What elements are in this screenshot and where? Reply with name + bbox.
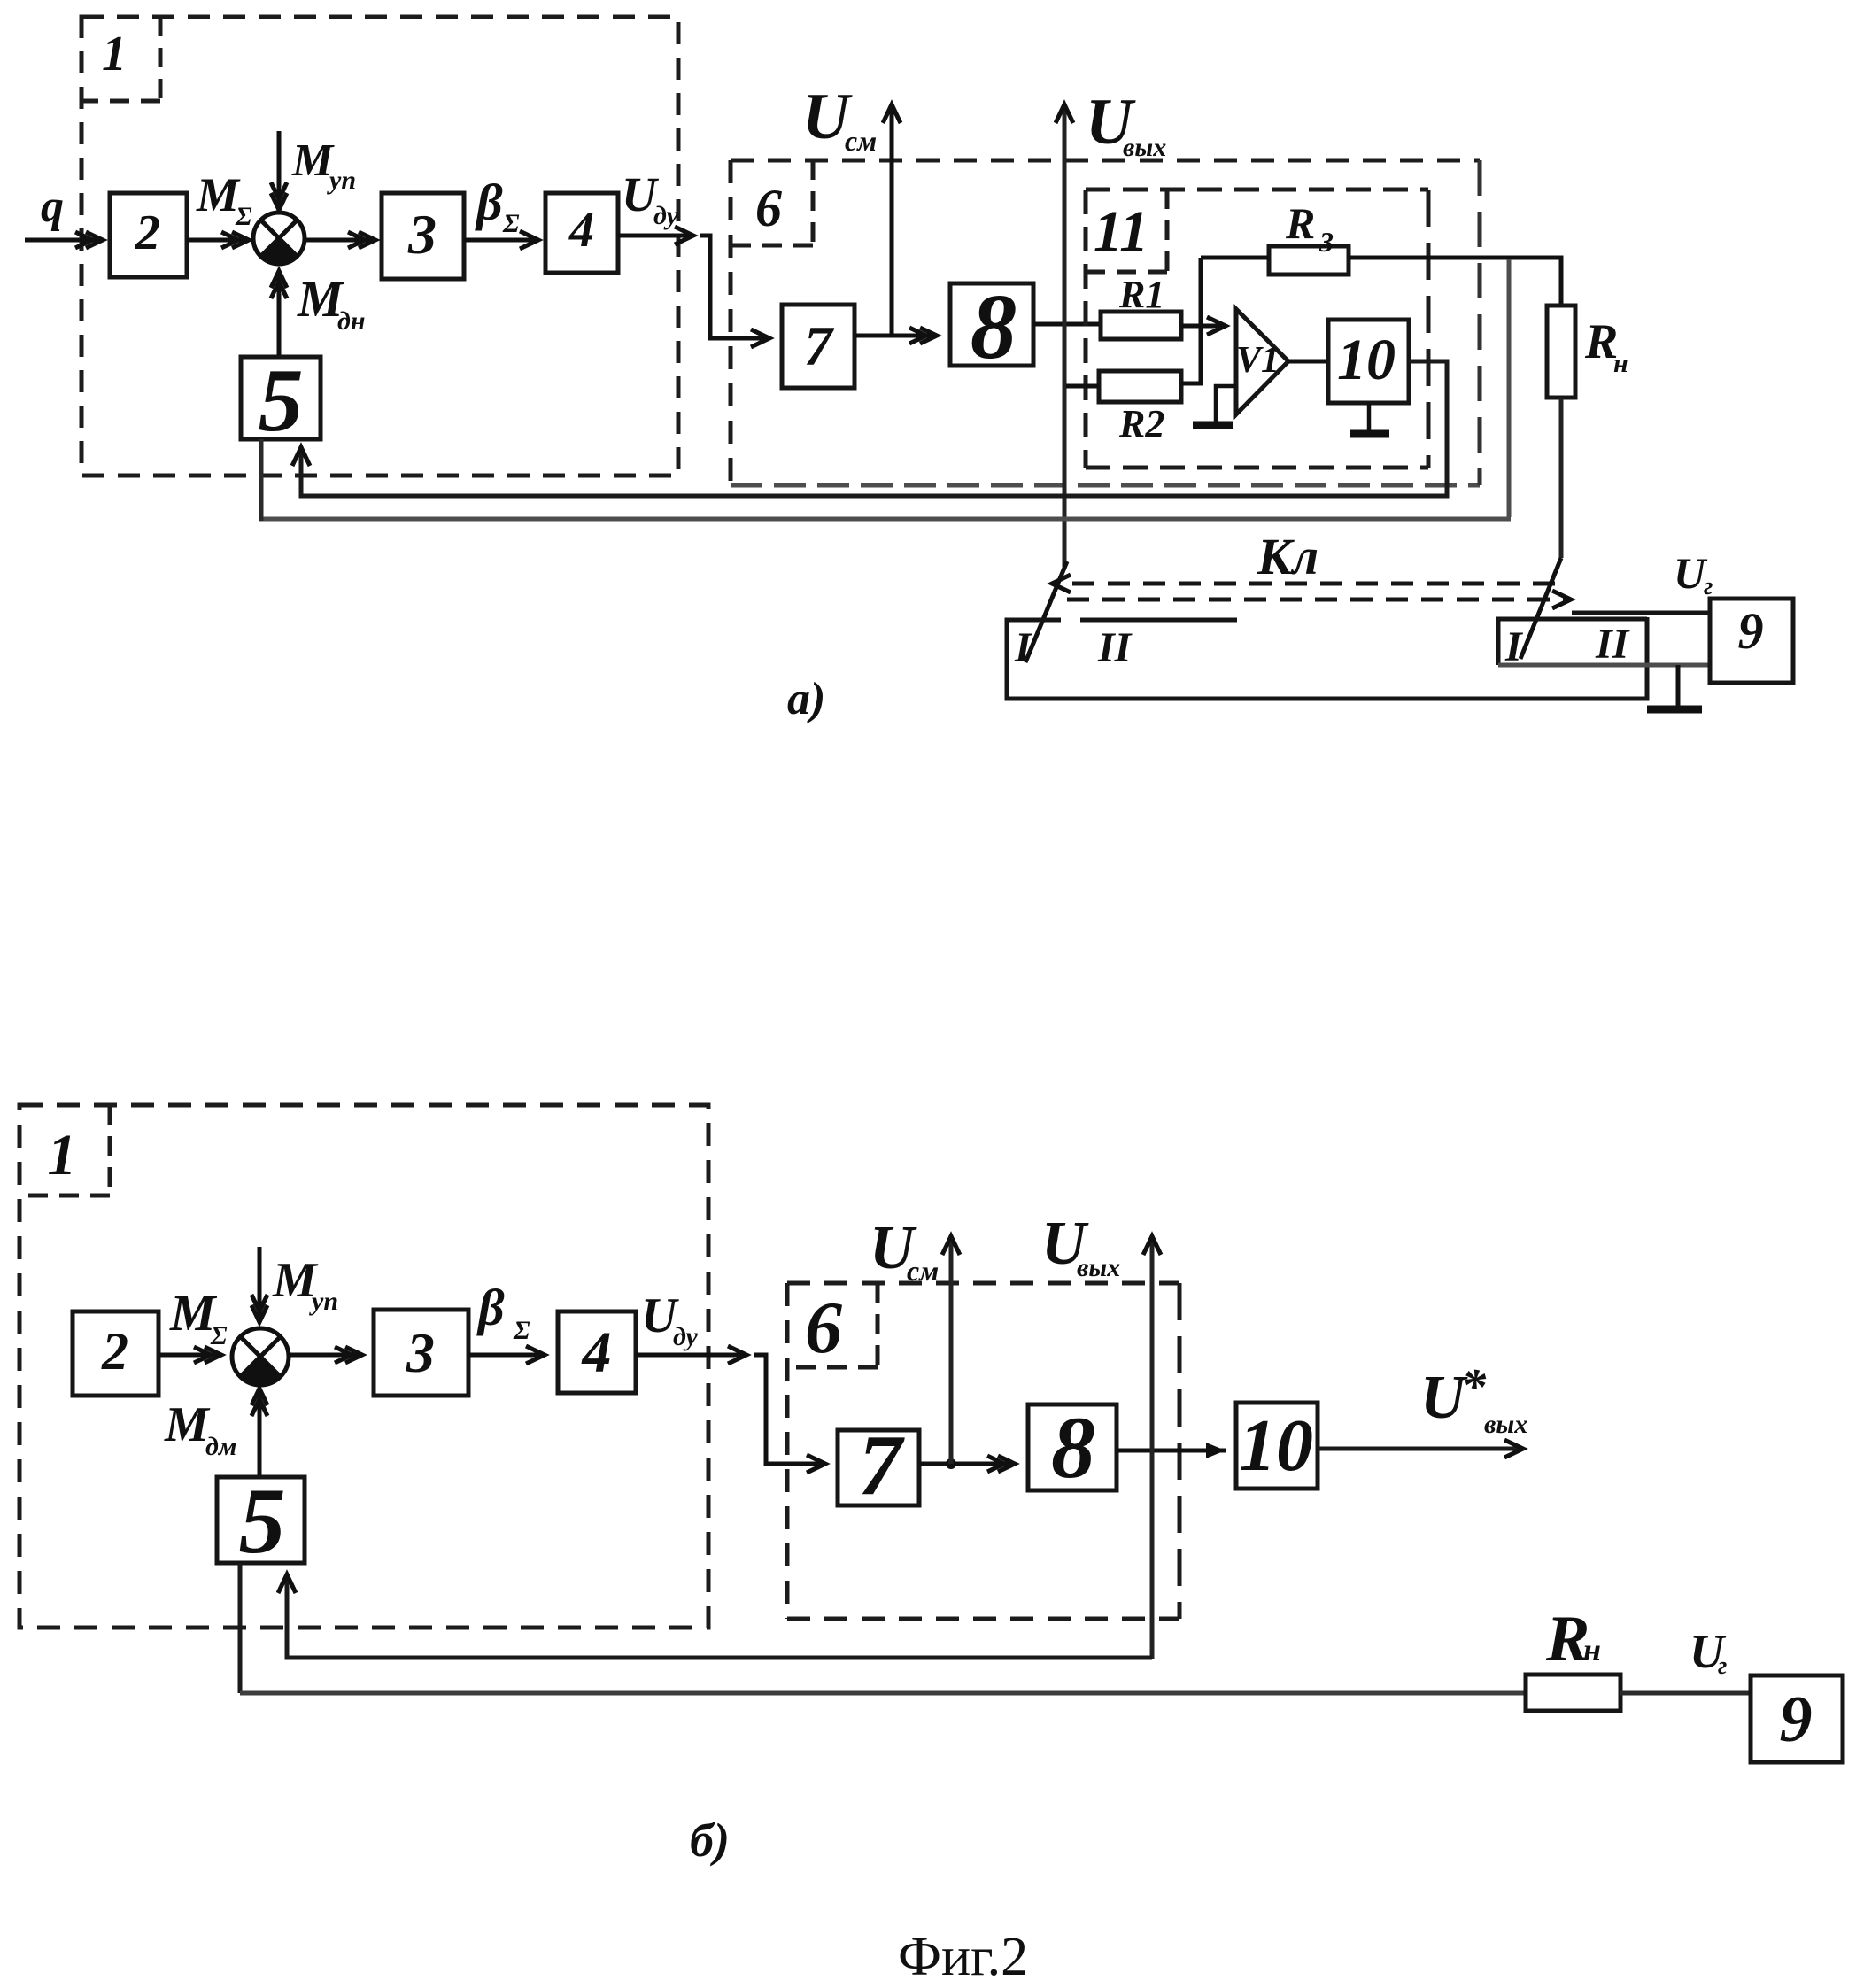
wire summer to block 3 — [304, 238, 375, 243]
block 2 — [73, 1311, 159, 1396]
svg-text:Σ: Σ — [513, 1316, 530, 1345]
contact II right bar to block 9 — [1572, 611, 1710, 615]
wire Rn to right switch pole — [1559, 398, 1564, 558]
block 2 — [110, 193, 187, 277]
svg-text:II: II — [1595, 621, 1631, 668]
svg-text:*: * — [1461, 1359, 1487, 1414]
wire block 5 down to load line — [238, 1563, 243, 1693]
svg-text:β: β — [475, 174, 503, 231]
svg-text:2: 2 — [101, 1322, 128, 1381]
svg-text:уп: уп — [309, 1287, 338, 1316]
wire R1 to op-amp input — [1181, 324, 1226, 329]
svg-text:6: 6 — [805, 1287, 842, 1369]
svg-text:Σ: Σ — [235, 202, 252, 231]
wire to block 7 — [754, 1355, 825, 1464]
svg-text:вых: вых — [1077, 1253, 1120, 1282]
svg-text:б): б) — [690, 1814, 730, 1867]
svg-text:V1: V1 — [1236, 340, 1280, 381]
wire block 10 output U*vyh — [1318, 1447, 1523, 1451]
svg-text:Σ: Σ — [502, 209, 520, 238]
wire R3 to Rn top — [1349, 258, 1561, 306]
block 7 — [838, 1430, 919, 1505]
wire U_sm tap — [890, 104, 894, 336]
switch coupling dashed link lower — [1067, 598, 1571, 602]
svg-text:а): а) — [787, 674, 825, 724]
svg-text:5: 5 — [259, 351, 304, 451]
ground at block 10 — [1367, 403, 1372, 432]
svg-text:11: 11 — [1094, 199, 1148, 264]
wire current feedback horizontal to block 5 — [259, 517, 1511, 522]
wire switch line to R2 — [1066, 384, 1099, 389]
wire feedback U_vyh to block 5 — [287, 1574, 1152, 1658]
wire block 8 to block 10 — [1117, 1449, 1226, 1453]
svg-text:Фиг.2: Фиг.2 — [898, 1927, 1028, 1987]
label box of block 1 — [19, 1105, 110, 1195]
svg-text:Σ: Σ — [210, 1321, 228, 1350]
wire block 7 to block 8 — [919, 1462, 1015, 1466]
svg-text:β: β — [476, 1279, 505, 1336]
wire block 4 output — [636, 1353, 746, 1358]
node summing vertical R1 R2 R3 — [1199, 258, 1203, 383]
wire U_vyh tap and feedback down — [1150, 1236, 1155, 1659]
resistor R3 — [1269, 246, 1349, 275]
svg-text:см: см — [845, 125, 877, 157]
svg-text:R: R — [1285, 198, 1315, 248]
wire block 5 to summer bottom — [258, 1389, 262, 1477]
block 3 — [382, 193, 464, 279]
wire op-amp to block 10 — [1288, 360, 1328, 364]
svg-text:уп: уп — [327, 166, 356, 195]
label box of block 6 — [787, 1283, 878, 1367]
op-amp V1 — [1236, 309, 1288, 414]
wire block 3 to block 4 — [468, 1353, 545, 1358]
svg-text:6: 6 — [755, 179, 782, 237]
svg-text:Кл: Кл — [1257, 528, 1319, 585]
label box of block 1 — [81, 17, 160, 101]
block 4 — [558, 1311, 636, 1393]
wire bottom of right contact to block 9 — [1498, 663, 1710, 668]
switch blade right pole — [1520, 558, 1561, 659]
svg-text:вых: вых — [1484, 1410, 1527, 1439]
wire block 8 to R1 — [1033, 322, 1101, 327]
svg-text:н: н — [1583, 1632, 1601, 1667]
svg-text:г: г — [1718, 1652, 1727, 1680]
svg-text:M: M — [291, 135, 335, 186]
svg-text:дн: дн — [337, 306, 366, 336]
junction U_sm — [946, 1458, 956, 1469]
wire block 4 output — [618, 234, 693, 238]
svg-text:3: 3 — [1319, 226, 1334, 258]
wire block 10 output feedback to block 5 — [301, 361, 1447, 496]
svg-text:7: 7 — [859, 1418, 906, 1513]
svg-text:10: 10 — [1337, 328, 1396, 392]
switch right contact frame — [1498, 619, 1647, 665]
wire block 2 to summer — [187, 238, 249, 243]
ground at op-amp input — [1216, 386, 1236, 423]
ground at block 9 — [1676, 665, 1681, 708]
wire block 2 to summer — [159, 1353, 221, 1358]
label box of block 11 — [1086, 190, 1167, 272]
svg-text:8: 8 — [971, 275, 1017, 378]
svg-text:R1: R1 — [1118, 273, 1164, 316]
switch blade left pole — [1025, 561, 1067, 662]
svg-text:10: 10 — [1239, 1404, 1313, 1487]
svg-text:1: 1 — [48, 1123, 77, 1187]
block 8 — [1028, 1404, 1117, 1490]
wire U_sm tap — [949, 1236, 954, 1464]
box 11 right edge — [1427, 190, 1431, 468]
block 5 — [217, 1477, 305, 1563]
svg-text:5: 5 — [239, 1469, 286, 1573]
svg-text:вых: вых — [1123, 133, 1166, 162]
svg-text:4: 4 — [581, 1320, 612, 1385]
svg-text:1: 1 — [102, 27, 127, 81]
box 11 top edge — [1086, 188, 1428, 192]
svg-text:M: M — [196, 168, 241, 221]
wire M_up into summer top — [258, 1247, 262, 1322]
wire q input — [25, 238, 103, 243]
box 6 left edge — [729, 160, 733, 485]
block 10 — [1236, 1403, 1318, 1489]
wire into block 5 bottom left — [259, 439, 264, 521]
box 6 bottom edge — [731, 483, 1480, 488]
block 5 — [241, 357, 321, 439]
svg-text:9: 9 — [1780, 1683, 1813, 1756]
svg-text:R2: R2 — [1118, 402, 1164, 445]
resistor R1 — [1101, 312, 1181, 339]
svg-text:ду: ду — [673, 1322, 698, 1351]
svg-text:8: 8 — [1051, 1398, 1095, 1497]
wire M_up into summer top — [277, 131, 282, 210]
block 9 — [1751, 1675, 1843, 1762]
wire summer to block 3 — [287, 1353, 362, 1358]
box 6 top edge — [731, 159, 1480, 163]
block 10 — [1328, 320, 1409, 403]
svg-text:н: н — [1613, 349, 1628, 378]
svg-text:I: I — [1014, 624, 1033, 671]
svg-text:9: 9 — [1738, 602, 1764, 660]
svg-text:дм: дм — [205, 1432, 236, 1461]
wire block 3 to block 4 — [464, 238, 538, 243]
switch left contact frame — [1007, 617, 1647, 699]
svg-text:7: 7 — [804, 314, 835, 377]
wire block 5 to summer bottom — [277, 271, 282, 357]
dashed box 11 (amplifier unit) — [1086, 190, 1428, 468]
block 9 — [1710, 599, 1793, 683]
svg-text:3: 3 — [407, 203, 437, 266]
svg-text:II: II — [1097, 624, 1133, 671]
label box of block 6 — [731, 160, 813, 245]
wire node to R3 — [1201, 256, 1269, 260]
dashed box 1 (gyro unit) — [81, 17, 678, 476]
switch coupling dashed link upper — [1052, 582, 1555, 586]
svg-text:M: M — [164, 1397, 211, 1452]
svg-text:ду: ду — [653, 201, 678, 230]
summing junction — [232, 1328, 289, 1385]
block 7 — [782, 305, 855, 388]
wire block 7 to block 8 — [855, 334, 937, 338]
block 4 — [545, 193, 618, 273]
box 11 bottom edge — [1086, 466, 1428, 470]
contact II left bar — [1080, 618, 1237, 623]
svg-text:2: 2 — [135, 205, 160, 260]
summing junction — [253, 213, 305, 264]
block 3 — [374, 1310, 468, 1396]
wire Rn to block 9 — [1620, 1691, 1751, 1696]
svg-text:г: г — [1704, 573, 1713, 600]
wire U_vyh tap down to switch — [1063, 104, 1067, 567]
wire current feedback from Rn junction — [1507, 259, 1512, 517]
dashed box 1 (gyro unit, diagram b) — [19, 1105, 708, 1628]
resistor Rn (load, diagram b) — [1526, 1675, 1620, 1711]
resistor Rn (load) — [1547, 306, 1575, 398]
svg-text:4: 4 — [568, 203, 594, 258]
box 11 left edge — [1084, 190, 1088, 468]
wire to block 7 — [700, 236, 769, 338]
dashed box 6 (converter unit, diagram b) — [787, 1283, 1179, 1619]
wire long line to Rn — [240, 1691, 1526, 1696]
resistor R2 — [1099, 371, 1181, 402]
svg-text:см: см — [907, 1255, 939, 1287]
box 6 right edge — [1478, 160, 1482, 485]
svg-text:3: 3 — [406, 1321, 435, 1384]
block 8 — [950, 283, 1033, 366]
svg-text:q: q — [41, 182, 64, 232]
wire R2 to node — [1181, 382, 1203, 386]
